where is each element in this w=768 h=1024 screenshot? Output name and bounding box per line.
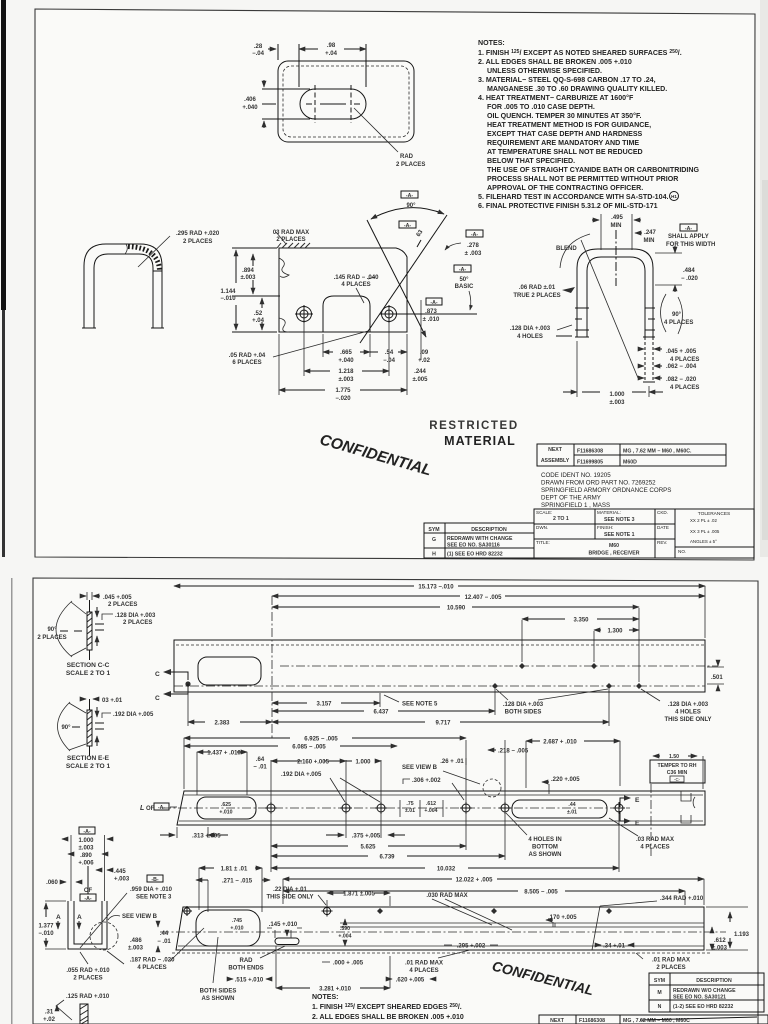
svg-text:.590: .590 [340, 926, 350, 932]
svg-text:4 PLACES: 4 PLACES [409, 968, 438, 974]
svg-text:OF: OF [84, 888, 93, 894]
svg-text:DRAWN FROM ORD PART NO. 726925: DRAWN FROM ORD PART NO. 7269252 [541, 480, 656, 487]
svg-text:ASSEMBLY: ASSEMBLY [541, 458, 570, 464]
svg-text:4 PLACES: 4 PLACES [640, 845, 669, 851]
svg-text:NOTES:: NOTES: [478, 39, 505, 47]
svg-text:±.003: ±.003 [712, 946, 728, 952]
svg-text:±.003: ±.003 [339, 377, 355, 383]
svg-text:2.383: 2.383 [214, 721, 230, 727]
svg-text:− .01: − .01 [157, 939, 171, 945]
svg-text:MATERIAL:: MATERIAL: [597, 510, 621, 515]
svg-text:.375 +.005: .375 +.005 [352, 834, 381, 840]
svg-text:12.022 + .005: 12.022 + .005 [456, 878, 494, 884]
svg-text:.045 +.005: .045 +.005 [103, 595, 132, 601]
svg-text:.31: .31 [45, 1010, 54, 1016]
svg-text:+.006: +.006 [78, 861, 94, 867]
svg-text:.055 RAD +.010: .055 RAD +.010 [66, 968, 110, 974]
svg-text:4 HOLES IN: 4 HOLES IN [528, 837, 561, 843]
svg-text:EXCEPT THAT CASE DEPTH AND HAR: EXCEPT THAT CASE DEPTH AND HARDNESS [487, 130, 643, 138]
svg-text:-A-: -A- [471, 232, 478, 238]
svg-text:12.407 − .005: 12.407 − .005 [465, 595, 503, 601]
svg-text:03 +.01: 03 +.01 [102, 698, 123, 704]
svg-text:5. FILEHARD TEST IN ACCORDANCE: 5. FILEHARD TEST IN ACCORDANCE WITH SA-S… [478, 193, 669, 201]
svg-text:.01 RAD MAX: .01 RAD MAX [405, 961, 443, 967]
svg-text:6.739: 6.739 [379, 855, 395, 861]
svg-text:.306 +.002: .306 +.002 [412, 778, 441, 784]
svg-text:+.02: +.02 [43, 1017, 56, 1023]
svg-text:.128 DIA +.003: .128 DIA +.003 [510, 326, 551, 332]
svg-text:A: A [77, 914, 82, 921]
svg-text:-B-: -B- [151, 877, 158, 883]
svg-text:4 PLACES: 4 PLACES [137, 965, 166, 971]
svg-text:SEE NOTE 3: SEE NOTE 3 [604, 517, 635, 523]
svg-text:.959 DIA + .010: .959 DIA + .010 [130, 887, 173, 893]
svg-text:−.020: −.020 [335, 396, 351, 402]
svg-text:RAD: RAD [240, 958, 254, 964]
svg-text:+.04: +.04 [325, 51, 338, 57]
svg-text:BOTTOM: BOTTOM [532, 845, 558, 851]
svg-text:(1-2) SEE EO HRD 82232: (1-2) SEE EO HRD 82232 [673, 1004, 733, 1010]
svg-text:L OF: L OF [140, 805, 155, 812]
svg-text:6.925 − .005: 6.925 − .005 [304, 737, 338, 743]
svg-text:.128 DIA +.003: .128 DIA +.003 [668, 702, 709, 708]
svg-text:−.04: −.04 [383, 358, 396, 364]
svg-text:90°: 90° [47, 627, 57, 633]
svg-text:90°: 90° [672, 312, 682, 318]
svg-text:+.010: +.010 [219, 810, 232, 816]
svg-text:H1: H1 [671, 194, 677, 199]
svg-text:BELOW THAT SPECIFIED.: BELOW THAT SPECIFIED. [487, 157, 575, 165]
svg-text:M60D: M60D [623, 460, 637, 466]
svg-text:M: M [657, 990, 661, 996]
svg-text:RESTRICTED: RESTRICTED [429, 420, 518, 432]
svg-text:.062 − .004: .062 − .004 [666, 364, 697, 370]
svg-text:.486: .486 [130, 938, 142, 944]
svg-text:-A-: -A- [158, 805, 165, 811]
svg-text:.745: .745 [232, 918, 242, 924]
svg-text:.665: .665 [340, 350, 352, 356]
svg-text:.515 +.010: .515 +.010 [235, 978, 264, 984]
svg-text:1. FINISH 125/ EXCEPT SHEARED: 1. FINISH 125/ EXCEPT SHEARED EDGES 250/… [312, 1003, 462, 1011]
svg-text:2.160 +.005: 2.160 +.005 [297, 760, 330, 766]
svg-text:+.02: +.02 [418, 358, 431, 364]
svg-text:1.000: 1.000 [78, 838, 94, 844]
svg-text:− .01: − .01 [253, 765, 267, 771]
svg-text:.75: .75 [406, 801, 413, 807]
svg-text:± .010: ± .010 [423, 317, 440, 323]
svg-text:.64: .64 [256, 757, 265, 763]
svg-text:BOTH SIDES: BOTH SIDES [200, 989, 237, 995]
svg-text:− .020: − .020 [681, 276, 699, 282]
svg-text:.09: .09 [420, 350, 429, 356]
svg-text:SEE VIEW B: SEE VIEW B [402, 765, 438, 771]
svg-text:MIN: MIN [644, 238, 655, 244]
svg-text:SEE EO NO. SA30121: SEE EO NO. SA30121 [673, 995, 726, 1001]
svg-text:1.300: 1.300 [607, 629, 623, 635]
svg-text:TOLERANCES: TOLERANCES [698, 511, 730, 517]
svg-text:SHALL APPLY: SHALL APPLY [668, 234, 709, 240]
svg-text:HEAT TREATMENT METHOD IS FOR G: HEAT TREATMENT METHOD IS FOR GUIDANCE, [487, 121, 651, 129]
svg-text:3.157: 3.157 [316, 702, 332, 708]
svg-text:AS SHOWN: AS SHOWN [202, 996, 235, 1002]
svg-text:±.005: ±.005 [413, 377, 429, 383]
svg-text:BASIC: BASIC [455, 284, 474, 290]
svg-text:.22 DIA +.01: .22 DIA +.01 [273, 887, 307, 893]
svg-text:4 HOLES: 4 HOLES [517, 334, 543, 340]
svg-text:SYM: SYM [654, 978, 665, 984]
svg-text:-A-: -A- [404, 223, 411, 229]
svg-text:DESCRIPTION: DESCRIPTION [471, 527, 507, 533]
svg-text:SCALE:: SCALE: [536, 510, 552, 515]
svg-text:.313 +.005: .313 +.005 [192, 834, 221, 840]
svg-text:−.04: −.04 [252, 51, 265, 57]
svg-text:.01 RAD MAX: .01 RAD MAX [652, 958, 690, 964]
svg-text:.28: .28 [254, 44, 263, 50]
svg-text:1.000: 1.000 [355, 760, 371, 766]
svg-text:-A-: -A- [83, 829, 90, 835]
svg-text:C: C [155, 695, 160, 702]
svg-text:5.625: 5.625 [360, 845, 376, 851]
svg-text:SEE NOTE 3: SEE NOTE 3 [136, 895, 172, 901]
svg-text:F11686308: F11686308 [579, 1018, 605, 1024]
svg-text:.295 RAD +.020: .295 RAD +.020 [176, 231, 220, 237]
svg-text:-A-: -A- [84, 896, 91, 902]
svg-text:.495: .495 [611, 215, 623, 221]
svg-text:.128 DIA +.003: .128 DIA +.003 [503, 702, 544, 708]
svg-text:NO.: NO. [678, 549, 686, 554]
svg-text:REQUIREMENT ARE MANDATORY AND: REQUIREMENT ARE MANDATORY AND TIME [487, 139, 639, 147]
svg-text:FINISH:: FINISH: [597, 525, 613, 530]
svg-text:DATE: DATE [657, 525, 669, 530]
svg-text:.06 RAD ±.01: .06 RAD ±.01 [519, 285, 556, 291]
svg-text:.890: .890 [80, 853, 92, 859]
svg-text:E: E [635, 797, 640, 804]
svg-text:1.218: 1.218 [338, 369, 354, 375]
svg-text:.26 + .01: .26 + .01 [440, 759, 464, 765]
svg-text:FOR THIS WIDTH: FOR THIS WIDTH [666, 242, 715, 248]
svg-text:TITLE:: TITLE: [536, 540, 550, 545]
svg-text:SPRINGFIELD ARMORY ORDNANCE CO: SPRINGFIELD ARMORY ORDNANCE CORPS [541, 487, 671, 494]
svg-text:RAD: RAD [400, 154, 414, 160]
svg-text:90°: 90° [406, 203, 416, 209]
svg-text:−.010: −.010 [220, 296, 236, 302]
svg-text:-C-: -C- [674, 777, 681, 782]
svg-text:+.04: +.04 [252, 318, 265, 324]
svg-text:NEXT: NEXT [548, 447, 563, 453]
svg-text:MATERIAL: MATERIAL [444, 434, 516, 448]
svg-text:+.010: +.010 [230, 926, 243, 932]
svg-text:8.505 − .005: 8.505 − .005 [524, 890, 558, 896]
svg-text:.170 +.005: .170 +.005 [548, 915, 577, 921]
svg-text:.501: .501 [711, 675, 723, 681]
svg-text:3.350: 3.350 [573, 618, 589, 624]
svg-text:.295 +.002: .295 +.002 [457, 944, 486, 950]
svg-text:-A-: -A- [406, 193, 413, 199]
svg-text:F11699805: F11699805 [577, 460, 603, 466]
svg-text:THIS SIDE ONLY: THIS SIDE ONLY [266, 895, 313, 901]
svg-text:NEXT: NEXT [550, 1018, 565, 1024]
svg-text:DEPT OF THE ARMY: DEPT OF THE ARMY [541, 495, 601, 502]
svg-text:4 PLACES: 4 PLACES [664, 320, 693, 326]
svg-text:THE USE OF STRAIGHT CYANIDE BA: THE USE OF STRAIGHT CYANIDE BATH OR CARB… [487, 166, 700, 174]
svg-text:.045 + .005: .045 + .005 [666, 349, 697, 355]
svg-text:10.032: 10.032 [437, 867, 456, 873]
svg-text:CODE IDENT NO. 19205: CODE IDENT NO. 19205 [541, 472, 611, 479]
svg-text:3. MATERIAL− STEEL QQ-S-698 C: 3. MATERIAL− STEEL QQ-S-698 CARBON .17 T… [478, 76, 656, 84]
svg-text:.082 − .020: .082 − .020 [666, 377, 697, 383]
svg-text:±.003: ±.003 [128, 946, 144, 952]
svg-text:SEE VIEW B: SEE VIEW B [122, 914, 158, 920]
svg-text:2. ALL EDGES SHALL BE BROKEN .: 2. ALL EDGES SHALL BE BROKEN .005 +.010 [478, 58, 632, 66]
svg-text:2 PLACES: 2 PLACES [123, 620, 152, 626]
svg-text:MG , 7.62 MM − M60 , M60C.: MG , 7.62 MM − M60 , M60C. [623, 449, 692, 455]
svg-text:6 PLACES: 6 PLACES [232, 360, 261, 366]
svg-text:AS SHOWN: AS SHOWN [529, 852, 562, 858]
svg-text:-A-: -A- [459, 267, 466, 273]
svg-text:SEE NOTE 5: SEE NOTE 5 [402, 702, 438, 708]
svg-text:.128 DIA +.003: .128 DIA +.003 [115, 613, 156, 619]
svg-text:.271 − .015: .271 − .015 [222, 879, 253, 885]
svg-text:-A-: -A- [430, 300, 437, 306]
svg-text:.484: .484 [683, 268, 695, 274]
svg-text:C: C [155, 671, 160, 678]
svg-text:ANGLES ± 5°: ANGLES ± 5° [690, 539, 717, 544]
svg-text:+.040: +.040 [242, 105, 258, 111]
svg-text:6.437: 6.437 [373, 710, 389, 716]
svg-text:10.590: 10.590 [447, 606, 466, 612]
svg-text:1.775: 1.775 [335, 388, 351, 394]
svg-text:±.003: ±.003 [610, 400, 626, 406]
svg-text:BOTH ENDS: BOTH ENDS [228, 966, 263, 972]
svg-text:.192 DIA +.005: .192 DIA +.005 [113, 712, 154, 718]
svg-text:SYM: SYM [428, 527, 439, 533]
svg-text:TRUE 2 PLACES: TRUE 2 PLACES [513, 293, 560, 299]
svg-text:2 TO 1: 2 TO 1 [553, 516, 569, 522]
svg-text:H: H [432, 552, 436, 558]
svg-text:BRIDGE , RECEIVER: BRIDGE , RECEIVER [588, 551, 639, 557]
svg-text:NOTES:: NOTES: [312, 994, 338, 1001]
svg-text:REDRAWN WITH CHANGE: REDRAWN WITH CHANGE [447, 536, 513, 542]
svg-text:2 PLACES: 2 PLACES [37, 635, 66, 641]
svg-text:.000 + .005: .000 + .005 [333, 961, 364, 967]
svg-text:2 PLACES: 2 PLACES [396, 162, 425, 168]
svg-text:+.004: +.004 [338, 934, 351, 940]
svg-text:1.193: 1.193 [734, 932, 750, 938]
svg-text:M60: M60 [609, 543, 619, 549]
svg-text:1.81 ± .01: 1.81 ± .01 [221, 867, 248, 873]
svg-text:REDRAWN W/O CHANGE: REDRAWN W/O CHANGE [673, 988, 736, 994]
svg-text:.344 RAD +.010: .344 RAD +.010 [660, 896, 704, 902]
svg-text:A: A [56, 914, 61, 921]
svg-text:50°: 50° [459, 277, 469, 283]
svg-text:-A-: -A- [685, 226, 692, 232]
svg-text:.873: .873 [425, 309, 437, 315]
svg-text:.247: .247 [644, 230, 656, 236]
svg-text:2 PLACES: 2 PLACES [656, 965, 685, 971]
svg-text:SECTION C-C: SECTION C-C [67, 662, 110, 669]
svg-text:PROCESS SHALL NOT BE PERMITTED: PROCESS SHALL NOT BE PERMITTED WITHOUT P… [487, 175, 678, 183]
svg-text:4 PLACES: 4 PLACES [341, 282, 370, 288]
svg-text:CKD.: CKD. [657, 510, 668, 515]
svg-text:.187 RAD − .020: .187 RAD − .020 [130, 958, 176, 964]
svg-text:C36 MIN: C36 MIN [667, 770, 688, 776]
svg-text:±.01: ±.01 [567, 810, 577, 816]
svg-text:4. HEAT TREATMENT− CARBURIZE A: 4. HEAT TREATMENT− CARBURIZE AT 1600°F [478, 94, 634, 102]
svg-text:.620 +.005: .620 +.005 [396, 978, 425, 984]
svg-text:THIS SIDE ONLY: THIS SIDE ONLY [664, 717, 711, 723]
svg-text:.625: .625 [221, 802, 231, 808]
svg-text:±.003: ±.003 [79, 846, 95, 852]
svg-text:2 PLACES: 2 PLACES [183, 239, 212, 245]
svg-text:1.50: 1.50 [669, 754, 679, 760]
svg-text:.030 RAD MAX: .030 RAD MAX [426, 893, 467, 899]
svg-text:TEMPER TO RH: TEMPER TO RH [657, 763, 696, 769]
svg-text:E: E [635, 820, 640, 827]
svg-text:±.01: ±.01 [405, 808, 415, 814]
svg-text:F11686308: F11686308 [577, 449, 603, 455]
svg-text:MANGANESE .30 TO .60 DRAWING Q: MANGANESE .30 TO .60 DRAWING QUALITY KIL… [487, 85, 667, 93]
svg-text:SPRINGFIELD 1 , MASS: SPRINGFIELD 1 , MASS [541, 502, 610, 509]
svg-text:.03 RAD MAX: .03 RAD MAX [636, 837, 674, 843]
svg-text:.05 RAD +.04: .05 RAD +.04 [229, 353, 266, 359]
svg-text:N: N [658, 1004, 662, 1010]
svg-text:XX 2 PL ± .02: XX 2 PL ± .02 [690, 518, 717, 523]
svg-text:.060: .060 [46, 880, 58, 886]
svg-text:.612: .612 [714, 938, 726, 944]
svg-text:DESCRIPTION: DESCRIPTION [696, 978, 732, 984]
svg-text:.218 − .005: .218 − .005 [498, 749, 529, 755]
svg-text:.44: .44 [568, 802, 575, 808]
svg-text:2 PLACES: 2 PLACES [108, 602, 137, 608]
svg-text:UNLESS OTHERWISE SPECIFIED.: UNLESS OTHERWISE SPECIFIED. [487, 67, 602, 75]
svg-text:.192 DIA +.005: .192 DIA +.005 [281, 772, 322, 778]
svg-text:6.085 − .005: 6.085 − .005 [292, 745, 326, 751]
svg-text:DWN.: DWN. [536, 525, 548, 530]
svg-text:SECTION E-E: SECTION E-E [67, 755, 110, 762]
svg-text:.406: .406 [244, 97, 256, 103]
svg-text:4 PLACES: 4 PLACES [670, 357, 699, 363]
svg-text:.612: .612 [426, 801, 436, 807]
svg-text:.125 RAD +.010: .125 RAD +.010 [66, 994, 110, 1000]
svg-text:.244: .244 [414, 369, 426, 375]
svg-text:3.281 +.010: 3.281 +.010 [319, 987, 352, 993]
svg-text:−.010: −.010 [38, 931, 54, 937]
svg-text:± .003: ± .003 [465, 251, 482, 257]
svg-text:AT TEMPERATURE SHALL NOT BE RE: AT TEMPERATURE SHALL NOT BE REDUCED [487, 148, 643, 156]
svg-text:.145 +.010: .145 +.010 [269, 922, 298, 928]
svg-text:FOR .005 TO .010 CASE DEPTH.: FOR .005 TO .010 CASE DEPTH. [487, 103, 595, 111]
svg-text:1.871 ±.005: 1.871 ±.005 [343, 892, 375, 898]
svg-text:.44: .44 [160, 931, 169, 937]
svg-text:SCALE 2 TO 1: SCALE 2 TO 1 [66, 670, 111, 677]
svg-text:.34 +.01: .34 +.01 [603, 944, 626, 950]
svg-text:15.173 −.010: 15.173 −.010 [418, 585, 454, 591]
svg-text:G: G [432, 537, 436, 543]
svg-text:.98: .98 [327, 43, 336, 49]
svg-text:APPROVAL OF THE CONTRACTING OF: APPROVAL OF THE CONTRACTING OFFICER. [487, 184, 643, 192]
svg-text:.54: .54 [385, 350, 394, 356]
svg-text:SCALE 2 TO 1: SCALE 2 TO 1 [66, 763, 111, 770]
svg-text:1. FINISH 125/ EXCEPT AS NOTED: 1. FINISH 125/ EXCEPT AS NOTED SHEARED S… [478, 49, 682, 57]
svg-text:REV.: REV. [657, 540, 667, 545]
svg-text:XX 3 PL ± .005: XX 3 PL ± .005 [690, 529, 720, 534]
svg-text:SEE NOTE 1: SEE NOTE 1 [604, 532, 635, 538]
svg-text:.220 +.005: .220 +.005 [551, 777, 580, 783]
svg-text:+.003: +.003 [114, 877, 130, 883]
svg-text:+.004: +.004 [424, 808, 437, 814]
svg-text:9.717: 9.717 [435, 721, 451, 727]
svg-text:1.144: 1.144 [220, 289, 236, 295]
svg-text:1.000: 1.000 [609, 392, 625, 398]
svg-text:90°: 90° [61, 725, 71, 731]
svg-text:.278: .278 [467, 243, 479, 249]
svg-text:2. ALL EDGES SHALL BE BROKEN .: 2. ALL EDGES SHALL BE BROKEN .005 +.010 [312, 1014, 464, 1021]
svg-text:BOTH SIDES: BOTH SIDES [505, 710, 542, 716]
svg-text:.445: .445 [114, 869, 126, 875]
svg-text:4 PLACES: 4 PLACES [670, 385, 699, 391]
svg-text:1.437 + .010: 1.437 + .010 [207, 751, 241, 757]
svg-text:SEE EO NO. SA30116: SEE EO NO. SA30116 [447, 543, 500, 549]
svg-text:1.377: 1.377 [38, 924, 54, 930]
svg-text:.52: .52 [254, 311, 263, 317]
svg-text:OIL QUENCH. TEMPER 30 MINUTES: OIL QUENCH. TEMPER 30 MINUTES AT 350°F. [487, 112, 641, 120]
svg-text:4 HOLES: 4 HOLES [675, 710, 701, 716]
svg-text:6. FINAL PROTECTIVE FINISH 5.3: 6. FINAL PROTECTIVE FINISH 5.31.2 OF MIL… [478, 202, 658, 210]
svg-text:2.687 + .010: 2.687 + .010 [543, 740, 577, 746]
svg-text:±.003: ±.003 [241, 275, 257, 281]
svg-text:MIN: MIN [611, 223, 622, 229]
svg-text:(1) SEE EO HRD 82232: (1) SEE EO HRD 82232 [447, 552, 503, 558]
svg-text:.894: .894 [242, 268, 254, 274]
svg-text:+.040: +.040 [338, 358, 354, 364]
svg-text:2 PLACES: 2 PLACES [73, 976, 102, 982]
